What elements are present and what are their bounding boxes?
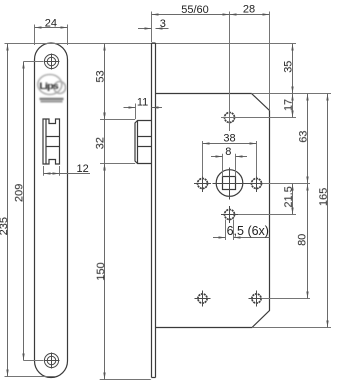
dimension 150 — [95, 164, 151, 380]
svg-text:235: 235 — [0, 217, 10, 235]
dimension 35 — [283, 44, 295, 94]
faceplate front view outline — [35, 43, 68, 378]
svg-text:24: 24 — [45, 18, 57, 30]
dimension 12 — [44, 163, 91, 176]
svg-text:150: 150 — [95, 262, 107, 280]
svg-text:32: 32 — [95, 137, 107, 149]
fixing hole top — [225, 109, 235, 126]
dimension 209 — [13, 62, 43, 361]
lock case outline — [156, 94, 270, 328]
latch bolt side view — [135, 121, 152, 164]
fixing hole right of spindle — [248, 175, 265, 192]
fixing hole left of spindle — [194, 175, 211, 192]
dimension 11 — [124, 96, 163, 119]
dimension 38 — [203, 133, 257, 177]
extension line case bottom right — [252, 327, 331, 329]
spindle follower with square hole — [213, 168, 250, 200]
svg-text:80: 80 — [296, 234, 308, 246]
dimension 55/60 — [152, 4, 230, 131]
screw hole top — [44, 54, 60, 70]
dimension 3 — [138, 18, 169, 30]
svg-text:55/60: 55/60 — [181, 4, 209, 16]
latch cutout front view — [43, 119, 60, 164]
svg-text:209: 209 — [13, 184, 25, 202]
svg-text:63: 63 — [298, 130, 310, 142]
svg-text:21.5: 21.5 — [283, 186, 295, 207]
fixing hole bottom left — [195, 291, 211, 307]
dimension 63 — [298, 94, 310, 184]
dimension 28 — [230, 4, 270, 111]
svg-text:12: 12 — [76, 163, 88, 175]
extension line spindle row right — [263, 183, 311, 185]
extension line case top right — [252, 93, 332, 95]
dimension 165 — [318, 94, 330, 328]
svg-text:38: 38 — [223, 133, 235, 145]
svg-text:28: 28 — [243, 4, 255, 16]
screw hole bottom — [44, 353, 60, 369]
extension line below-spindle hole right — [238, 214, 296, 216]
dimension 21.5 — [283, 184, 295, 215]
svg-text:8: 8 — [225, 146, 231, 158]
svg-text:3: 3 — [160, 18, 166, 30]
brand logo — [38, 75, 66, 103]
svg-text:17: 17 — [283, 99, 295, 111]
svg-text:Lips: Lips — [39, 82, 59, 92]
svg-text:6,5 (6x): 6,5 (6x) — [227, 224, 269, 238]
dimension 24 — [35, 18, 68, 46]
dimension 235 — [0, 44, 296, 377]
dimension 80 — [296, 184, 308, 299]
extension line top hole right — [221, 117, 296, 119]
svg-text:53: 53 — [95, 70, 107, 82]
svg-text:11: 11 — [137, 96, 148, 108]
fixing hole below spindle — [221, 206, 238, 223]
dimension 32 — [95, 112, 136, 171]
svg-text:35: 35 — [283, 61, 295, 73]
fixing hole bottom right — [249, 291, 265, 307]
faceplate edge-on side view — [152, 43, 156, 378]
dimension 53 — [95, 44, 136, 120]
svg-text:165: 165 — [318, 188, 330, 206]
dimension 17 — [283, 94, 295, 118]
dimension 8 — [211, 146, 247, 177]
extension line bottom hole right — [262, 298, 311, 300]
dimension 6,5 (6x) — [213, 220, 270, 241]
